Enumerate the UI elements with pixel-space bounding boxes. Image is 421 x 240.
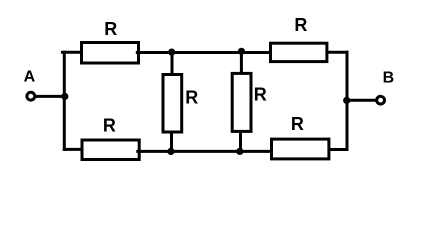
wire: top rail left segment (left rail to R1) <box>61 51 82 54</box>
wire: bottom rail left segment (left rail to R3) <box>63 148 82 151</box>
wire: top rail right segment (R2 to right rail) <box>328 51 349 54</box>
svg-text:R: R <box>294 15 307 35</box>
junction dot: top wire / R5 <box>168 49 175 56</box>
svg-text:R: R <box>185 87 198 107</box>
wire: left vertical rail <box>63 51 66 151</box>
wire: top rail middle segment (R1 to R2 with taps) <box>136 51 271 54</box>
svg-text:R: R <box>291 114 304 134</box>
junction dot: bottom wire / R5 <box>167 148 174 155</box>
resistor R3 (bottom-left) body <box>82 140 139 160</box>
junction dot: bottom wire / R6 <box>236 148 243 155</box>
junction dot: right rail / B lead <box>343 97 350 104</box>
resistor R1 (top-left) body <box>82 43 139 64</box>
wire: R6 bottom lead <box>239 132 242 153</box>
wire: R6 top lead <box>240 51 243 75</box>
resistor R2 (top-right) body <box>271 43 327 61</box>
resistor R6 (middle-right vertical) body <box>232 73 251 131</box>
resistor R5 (middle-left vertical) body <box>163 75 182 133</box>
wire: R5 top lead <box>171 52 174 75</box>
wire: bottom rail right segment (R4 to right rail) <box>329 148 349 151</box>
svg-text:R: R <box>103 116 116 136</box>
junction dot: left rail / A lead <box>61 93 68 100</box>
wire: terminal B lead <box>346 99 376 102</box>
junction dot: top wire / R6 <box>238 48 245 55</box>
wire: R5 bottom lead <box>170 132 173 153</box>
svg-text:A: A <box>24 69 36 86</box>
resistor R4 (bottom-right) body <box>272 139 329 159</box>
wire: terminal A lead <box>35 95 67 98</box>
terminal B (open circle) <box>377 96 385 104</box>
svg-text:R: R <box>254 85 267 105</box>
svg-text:B: B <box>383 70 395 87</box>
wire: bottom rail middle segment (R3 to R4 with taps) <box>136 150 272 153</box>
terminal A (open circle) <box>27 92 35 100</box>
wire: right vertical rail <box>346 51 349 151</box>
svg-text:R: R <box>104 19 117 39</box>
